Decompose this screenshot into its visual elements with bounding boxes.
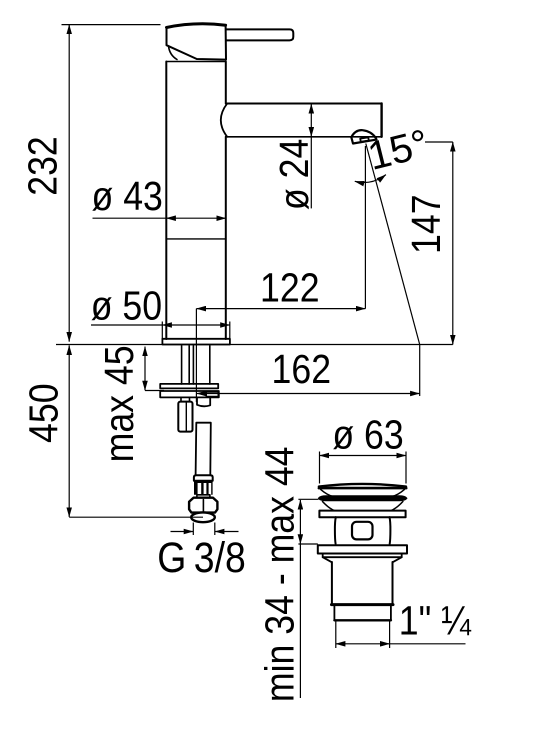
dim G3/8 right arrow xyxy=(215,531,239,533)
162 right ext xyxy=(419,345,421,397)
drain cap funnel xyxy=(321,489,334,496)
dim min34max44 top ext xyxy=(298,498,318,500)
122 left ext (centerline) xyxy=(195,309,197,402)
dim 147 line xyxy=(452,142,454,345)
o24 leader down xyxy=(310,137,312,209)
dim 1inch arrows xyxy=(336,643,390,645)
angle arc xyxy=(355,175,386,183)
dim 450 line xyxy=(68,345,70,517)
drain tube bottom bold line xyxy=(332,603,394,606)
dim o24 arrows xyxy=(310,104,312,137)
crimp collar xyxy=(194,475,213,481)
drain shoulder xyxy=(323,557,402,562)
450 leader to nut xyxy=(69,516,203,518)
svg-text:450: 450 xyxy=(21,383,67,442)
dim o50 leader xyxy=(91,324,162,326)
drain flange 1 xyxy=(319,511,405,518)
drain cap top dome xyxy=(319,484,406,487)
dim 122 line xyxy=(196,308,365,310)
svg-text:ø 50: ø 50 xyxy=(91,283,162,329)
handle lever xyxy=(226,29,293,40)
dim 1inch ext lines xyxy=(336,622,390,649)
o63 ext lines xyxy=(320,452,407,484)
washer2 small box xyxy=(206,392,218,396)
body left edge xyxy=(165,62,167,340)
svg-text:162: 162 xyxy=(272,347,331,393)
dim min34max44 bottom ext xyxy=(298,543,317,545)
handle cap xyxy=(167,24,226,28)
left stub below washers xyxy=(181,398,190,402)
dim o63 line xyxy=(320,455,407,457)
handle shoulder arc xyxy=(169,46,178,60)
dim 162 line xyxy=(197,393,420,395)
svg-text:232: 232 xyxy=(20,136,66,195)
svg-text:147: 147 xyxy=(404,194,450,253)
o50 ext lines xyxy=(162,322,230,339)
dim o50 arrows xyxy=(162,324,230,326)
aerator outlet slot xyxy=(360,137,369,141)
svg-text:ø 24: ø 24 xyxy=(272,139,318,210)
15 deg diagonal xyxy=(366,144,420,345)
body right edge upper xyxy=(225,62,227,104)
aerator vertical ref xyxy=(364,146,366,309)
drain cap bottom bar xyxy=(319,487,406,490)
crimp ribs xyxy=(194,481,213,495)
counter line xyxy=(56,344,453,346)
ext line top (handle level) xyxy=(62,24,161,26)
body top rim xyxy=(167,61,226,63)
base flange xyxy=(162,339,230,345)
dim G3/8 ext lines xyxy=(193,523,215,536)
hex nut xyxy=(189,498,217,513)
svg-text:ø 63: ø 63 xyxy=(332,412,403,458)
left hose fitting xyxy=(178,402,192,432)
svg-text:1" ¼: 1" ¼ xyxy=(399,598,472,644)
crimp lower ring xyxy=(197,495,210,498)
dim min34max44 arrows xyxy=(299,500,301,544)
washer 1 xyxy=(160,384,218,389)
washer 2 (nut) xyxy=(160,391,219,397)
drain flange 2 xyxy=(318,545,407,553)
hose tube xyxy=(196,423,211,476)
drain rim (dark stadium) xyxy=(319,496,407,501)
stud xyxy=(192,346,194,384)
nut bottom ellipse xyxy=(191,512,215,522)
dim max45 line xyxy=(144,347,146,391)
dim o43 arrows xyxy=(166,217,226,219)
drain flange 2 step xyxy=(323,554,402,558)
drain neck xyxy=(334,517,337,544)
aerator dome xyxy=(351,130,376,138)
min34max44 line down xyxy=(299,544,301,698)
drain neck square hole xyxy=(352,522,373,540)
drain lower band xyxy=(334,605,391,620)
spout right end xyxy=(380,104,382,137)
svg-text:G 3/8: G 3/8 xyxy=(157,533,246,581)
spout left round cap xyxy=(221,104,227,137)
15 deg leader xyxy=(425,141,453,143)
svg-text:ø 43: ø 43 xyxy=(92,174,163,220)
rod left pair xyxy=(181,346,183,384)
max45 bottom ext xyxy=(145,390,164,392)
body joint line xyxy=(166,238,226,240)
body right edge lower xyxy=(225,137,227,339)
dim G3/8 left arrow xyxy=(171,531,194,533)
spout top xyxy=(227,103,381,105)
svg-text:max 45: max 45 xyxy=(97,345,143,462)
dim 232 line xyxy=(68,25,70,342)
aerator body xyxy=(351,137,376,143)
drain funnel 2 xyxy=(323,502,335,511)
right hose stub xyxy=(197,398,210,407)
1inch leader right xyxy=(390,643,466,645)
spout bottom xyxy=(227,136,381,138)
hose right wall xyxy=(209,346,211,384)
svg-text:min 34 - max 44: min 34 - max 44 xyxy=(257,447,303,703)
drain tube xyxy=(332,562,393,604)
svg-text:122: 122 xyxy=(260,265,319,311)
dim o43 leader xyxy=(93,217,167,219)
